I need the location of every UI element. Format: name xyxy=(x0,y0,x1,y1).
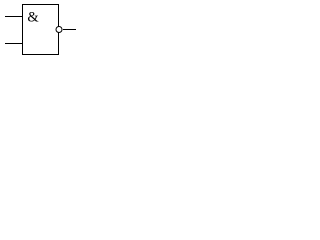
NAND gate U1 body (IEC rectangle) xyxy=(23,5,59,55)
inversion bubble on output xyxy=(56,27,62,33)
wire output Y xyxy=(63,29,76,31)
wire input A xyxy=(5,16,23,18)
wire input B xyxy=(5,43,23,45)
svg-text:&: & xyxy=(27,10,39,26)
background xyxy=(0,0,84,61)
